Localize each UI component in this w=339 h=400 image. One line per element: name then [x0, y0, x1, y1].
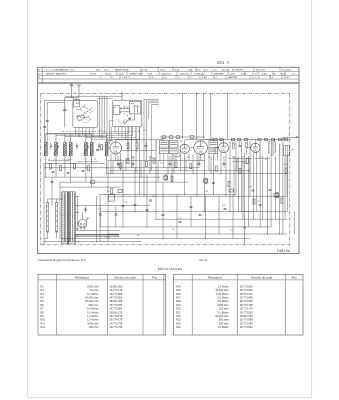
bus wire 15 — [109, 233, 287, 235]
S1 rotor spoke b — [85, 117, 89, 118]
coil L2 bottom lead — [55, 156, 57, 164]
svg-text:8.8.8: 8.8.8 — [202, 77, 208, 79]
svg-text:B3: B3 — [196, 138, 199, 140]
wire drop 14 — [143, 119, 145, 197]
bottom left bus — [44, 241, 100, 243]
header r3 sep 0 — [119, 75, 121, 79]
S1 wafer arc — [80, 106, 87, 110]
S1 inner line — [76, 102, 80, 104]
svg-text:C33: C33 — [248, 187, 253, 189]
S2 contact dot 4 — [120, 112, 121, 113]
interblock top bus 2 — [98, 97, 113, 99]
svg-text:L7: L7 — [84, 159, 86, 161]
header r3 sep 5 — [199, 75, 201, 79]
output transformer core — [270, 141, 272, 156]
selector contact 2 — [46, 215, 49, 218]
wire drop 58 — [190, 196, 192, 227]
S1 contact dot 9 — [85, 118, 88, 121]
bus wire 16 — [60, 238, 250, 240]
S1 top sub-box — [74, 100, 80, 107]
svg-text:28.773.688: 28.773.688 — [240, 318, 253, 322]
mains entry arrow — [284, 136, 299, 138]
S1 contact dot 6 — [83, 111, 86, 114]
box component 1 — [108, 194, 114, 201]
transformer tap rail — [76, 197, 78, 231]
resistor r1 — [165, 175, 167, 180]
box component 6 — [118, 190, 122, 193]
header r1 sep 0 — [157, 67, 159, 71]
wire drop 49 — [286, 156, 288, 197]
resistor r12 — [239, 169, 241, 174]
junction 26 — [52, 204, 53, 205]
S1 contact dot 10 — [80, 109, 83, 112]
svg-text:1,2 Mohm: 1,2 Mohm — [217, 296, 228, 300]
bus wire 12 — [242, 211, 287, 213]
output top wires — [254, 140, 256, 144]
svg-text:28.001.608: 28.001.608 — [110, 299, 123, 303]
output transformer secondary — [275, 143, 276, 154]
svg-text:R8: R8 — [187, 157, 190, 159]
junction 0 — [45, 167, 46, 168]
tube B5 grid lead — [247, 147, 251, 149]
wire drop 8 — [115, 154, 117, 161]
bus wire 13 — [156, 218, 287, 220]
capacitor C15 — [145, 144, 148, 146]
wire drop 22 — [175, 154, 177, 161]
resistor r17 — [253, 199, 255, 204]
svg-text:S. F.: S. F. — [196, 69, 201, 71]
wire drop 51 — [107, 161, 109, 242]
S1 contact dot 4 — [89, 111, 92, 114]
svg-text:40/60 Hz: 40/60 Hz — [180, 73, 189, 75]
tube B1 plate lead — [115, 140, 117, 142]
svg-text:R25: R25 — [284, 164, 289, 166]
switch unit S1 box — [73, 101, 98, 128]
S2 inner box — [130, 102, 141, 114]
resistor r0 — [111, 189, 113, 194]
svg-text:24B19a: 24B19a — [277, 249, 290, 253]
S2 sub-box — [113, 106, 120, 115]
junction 12 — [221, 173, 222, 174]
svg-text:28.773.806: 28.773.806 — [110, 292, 123, 296]
coil junction 2 — [85, 167, 86, 168]
svg-text:No 47: No 47 — [280, 73, 287, 75]
wire drop 43 — [262, 156, 264, 219]
capacitor c4 — [252, 189, 255, 191]
S1 contact dot 3 — [88, 109, 91, 112]
svg-text:28.773.179: 28.773.179 — [110, 314, 123, 318]
wire drop 79 — [249, 158, 251, 174]
S1 drop 2 — [82, 127, 84, 134]
svg-text:28.773.986: 28.773.986 — [240, 296, 253, 300]
IF transformer S3 — [159, 141, 168, 154]
tube B2 (IF amp) — [180, 144, 189, 153]
svg-text:28.773.979: 28.773.979 — [240, 292, 253, 296]
svg-text:R20: R20 — [176, 307, 181, 311]
transformer tap 0 — [75, 196, 79, 198]
wire drop 59 — [205, 196, 207, 238]
transformer top plate — [62, 191, 76, 193]
svg-text:No 4: No 4 — [161, 69, 166, 71]
wire drop 0 — [45, 168, 47, 177]
bottom left drop — [96, 196, 98, 242]
svg-text:R12: R12 — [40, 325, 45, 329]
svg-text:No 23.50: No 23.50 — [256, 69, 266, 71]
S2 inner drop — [134, 114, 136, 120]
capacitor c10 — [199, 213, 202, 215]
junction 13 — [230, 211, 231, 212]
S2 inner link a — [120, 108, 130, 110]
wire drop 80 — [85, 206, 87, 213]
wire drop 52 — [99, 195, 101, 242]
svg-text:RÉSISTANCES: RÉSISTANCES — [158, 266, 183, 271]
wire drop 61 — [232, 195, 234, 239]
cluster cap — [96, 149, 99, 151]
wire drop 81 — [99, 206, 101, 227]
resistor r4 — [276, 193, 278, 198]
left table header line — [38, 279, 166, 281]
svg-text:C26: C26 — [242, 163, 247, 165]
S2 top feed — [121, 97, 123, 100]
header r2 sep 9 — [257, 71, 259, 75]
right drop 1 — [238, 156, 240, 212]
capacitor c17 — [51, 180, 54, 182]
wire drop 68 — [132, 156, 134, 168]
wire drop 54 — [134, 168, 136, 212]
svg-text:R17: R17 — [176, 296, 181, 300]
wire drop 72 — [169, 156, 171, 168]
wire drop 33 — [220, 153, 222, 174]
svg-text:R15: R15 — [176, 288, 181, 292]
svg-text:R5: R5 — [160, 163, 163, 165]
header bottom line — [38, 82, 299, 84]
coil L1 bottom lead — [45, 156, 47, 168]
svg-text:28.774.179: 28.774.179 — [110, 318, 123, 322]
wire drop 16 — [150, 119, 152, 171]
S2 drop 5 — [132, 127, 134, 136]
svg-text:R6: R6 — [172, 158, 175, 160]
wire drop 39 — [249, 141, 251, 196]
trimmer cap b — [75, 145, 77, 148]
svg-text:R1: R1 — [40, 284, 44, 288]
coil L4 bottom lead — [70, 156, 72, 164]
svg-text:Résistance: Résistance — [208, 275, 223, 279]
svg-text:C18: C18 — [124, 202, 129, 204]
junction 3 — [106, 173, 107, 174]
resistor r9 — [175, 162, 177, 167]
right drop 5 — [287, 156, 289, 212]
coil junction 1 — [64, 167, 65, 168]
header r2 sep 1 — [126, 71, 128, 75]
left field resistor 2 — [74, 164, 76, 169]
capacitor c5 — [259, 203, 262, 205]
coil L3 bottom lead — [64, 156, 66, 168]
transformer tap 1 — [75, 212, 79, 214]
svg-text:Résistance: Résistance — [75, 275, 90, 279]
svg-text:R10: R10 — [40, 318, 45, 322]
svg-text:461 A: 461 A — [105, 72, 111, 75]
svg-text:50 ohm: 50 ohm — [90, 288, 99, 292]
header r3 sep 10 — [281, 75, 283, 79]
svg-text:R14: R14 — [176, 284, 181, 288]
wire drop 75 — [198, 156, 200, 168]
svg-text:4,2 Mohm: 4,2 Mohm — [217, 325, 228, 329]
svg-text:T.C.: T.C. — [213, 69, 217, 71]
svg-text:30.000 ohm: 30.000 ohm — [215, 288, 228, 292]
svg-text:28.773.179: 28.773.179 — [110, 288, 123, 292]
S2 connector symbol — [133, 105, 139, 107]
svg-text:400 ohm: 400 ohm — [89, 325, 99, 329]
capacitor c7 — [149, 199, 152, 201]
svg-text:28.773.768: 28.773.768 — [110, 321, 123, 325]
svg-text:R.S.: R.S. — [96, 69, 101, 71]
wire drop 30 — [208, 154, 210, 171]
chain component 6 — [264, 138, 267, 140]
capacitor c6 — [269, 188, 272, 190]
top feeder wire 2 — [203, 94, 205, 140]
left field cap 1 — [67, 172, 70, 174]
svg-text:R8: R8 — [40, 310, 44, 314]
chain component b3 — [190, 136, 194, 139]
transformer winding 3 — [73, 193, 76, 242]
selector contact 4 — [46, 225, 49, 228]
wire drop 37 — [241, 141, 243, 212]
tube B1 (mixer) — [110, 142, 122, 154]
S1 rotor — [77, 115, 85, 121]
capacitor c11 — [224, 207, 227, 209]
junction 28 — [213, 194, 214, 195]
S2 contact dot 0 — [121, 108, 122, 109]
resistor r13 — [246, 159, 248, 164]
wire drop 78 — [236, 158, 238, 171]
top feeder wire 3 — [210, 94, 212, 140]
junction 6 — [139, 194, 140, 195]
svg-text:28.773.654: 28.773.654 — [110, 303, 123, 307]
header left col line — [41, 67, 43, 83]
wire drop 65 — [112, 161, 114, 174]
trimmer cap a — [49, 145, 51, 148]
header r2 sep 2 — [140, 71, 142, 75]
right drop 3 — [248, 156, 250, 227]
svg-text:23.47: 23.47 — [284, 77, 290, 79]
transformer primary winding — [61, 192, 64, 241]
wire drop 45 — [270, 156, 272, 227]
junction 1 — [64, 167, 65, 168]
wire drop 60 — [218, 196, 220, 234]
svg-text:B. V.: B. V. — [204, 69, 209, 71]
link wire b — [56, 134, 133, 136]
junction 25 — [135, 211, 136, 212]
page right edge — [311, 0, 313, 398]
chain component b0 — [162, 136, 166, 139]
S2 loop wire 0 — [144, 99, 159, 118]
svg-text:S.G.R.: S.G.R. — [90, 73, 97, 75]
header r2 sep 4 — [176, 71, 178, 75]
wire drop 11 — [131, 127, 133, 168]
svg-text:C30: C30 — [98, 209, 103, 211]
junction 8 — [168, 173, 169, 174]
top feeder wire 0 — [182, 94, 184, 140]
wire drop 77 — [223, 156, 225, 168]
resistor r11 — [215, 166, 217, 171]
svg-text:R3: R3 — [40, 292, 44, 296]
wire drop 76 — [210, 158, 212, 174]
S2 drop 4 — [128, 127, 130, 134]
wire drop 21 — [171, 154, 173, 183]
capacitor c16 — [84, 208, 87, 210]
svg-text:R11: R11 — [40, 321, 45, 325]
wire drop 47 — [278, 156, 280, 234]
svg-text:C14: C14 — [131, 157, 136, 159]
svg-text:No. 11: No. 11 — [200, 258, 208, 262]
trimmer cap c — [98, 145, 100, 148]
svg-text:R24: R24 — [176, 321, 181, 325]
header r3 sep 9 — [269, 75, 271, 79]
wire drop 19 — [163, 154, 165, 168]
antenna feed cap — [43, 125, 46, 127]
svg-text:Fr. 23.50: Fr. 23.50 — [282, 68, 291, 71]
svg-text:MINIWATT: MINIWATT — [214, 72, 225, 75]
S1 inner wire c — [89, 108, 92, 111]
capacitor c21 — [223, 162, 226, 164]
switch unit S2 box — [113, 100, 142, 126]
S2 rotor — [124, 118, 131, 124]
transformer secondary winding — [68, 192, 71, 241]
chain component 4 — [244, 138, 247, 140]
bus wire 6 — [60, 181, 189, 183]
svg-text:S9: S9 — [137, 235, 140, 237]
S2 drop 7 — [139, 127, 141, 140]
IF transformer S4 — [169, 141, 178, 154]
junction 24 — [108, 234, 109, 235]
svg-text:28.773.969: 28.773.969 — [240, 325, 253, 329]
wire drop 46 — [275, 156, 277, 219]
svg-text:28.773.769: 28.773.769 — [110, 325, 123, 329]
capacitor c1 — [122, 204, 125, 206]
svg-text:N°: N° — [39, 69, 42, 71]
junction 16 — [260, 226, 261, 227]
capacitor c19 — [169, 162, 172, 164]
coil junction b 2 — [91, 163, 92, 164]
junction 10 — [197, 196, 198, 197]
wire drop 40 — [253, 152, 255, 219]
output transformer primary — [269, 142, 270, 155]
tube B4 (AF) — [219, 143, 229, 153]
cluster dot a — [99, 136, 100, 137]
svg-text:28.773.996: 28.773.996 — [240, 299, 253, 303]
left table inner edge — [163, 274, 165, 335]
S2 contact dot 7 — [130, 117, 131, 118]
capacitor c22 — [132, 162, 135, 164]
right table header line — [174, 279, 303, 281]
wire drop 36 — [235, 141, 237, 195]
wire drop 73 — [173, 158, 175, 174]
bus wire 17 — [100, 241, 141, 243]
wire drop 2 — [64, 168, 66, 177]
svg-text:28.773.806: 28.773.806 — [240, 288, 253, 292]
svg-text:L9: L9 — [105, 159, 107, 161]
wire drop 48 — [282, 137, 284, 234]
svg-text:R20: R20 — [205, 191, 210, 193]
left link wire 2 — [78, 161, 98, 163]
link wire a — [46, 132, 129, 134]
coil L4 top lead — [70, 134, 72, 143]
S1 drop 5 — [92, 127, 94, 136]
chain component 9 — [284, 138, 287, 140]
top chain wire — [206, 139, 291, 141]
svg-text:JANVIER: JANVIER — [228, 76, 238, 79]
wire drop 34 — [225, 153, 227, 197]
coil L7 bottom lead — [106, 156, 108, 168]
header r2 sep 5 — [190, 71, 192, 75]
S1 contact dot 7 — [87, 116, 90, 119]
coil junction 3 — [106, 167, 107, 168]
svg-text:B1: B1 — [111, 141, 114, 143]
right drop 4 — [284, 156, 286, 219]
wire drop 13 — [139, 127, 141, 195]
svg-text:B2: B2 — [180, 141, 183, 143]
rectifier hum bus — [75, 230, 120, 232]
svg-text:S1: S1 — [99, 130, 102, 132]
svg-text:⊥ L.A.: ⊥ L.A. — [104, 236, 110, 239]
junction 20 — [123, 226, 124, 227]
svg-text:200 ohm: 200 ohm — [219, 321, 229, 325]
header r3 sep 4 — [188, 75, 190, 79]
coil L1 top lead — [45, 134, 47, 143]
left table frame — [38, 274, 166, 335]
junction 23 — [205, 238, 206, 239]
chain component 2 — [231, 138, 234, 140]
wire drop 25 — [188, 154, 190, 161]
coil L7 top lead — [106, 134, 108, 143]
coil L6 top lead — [91, 134, 93, 143]
wire drop 3 — [70, 163, 72, 182]
chain component 8 — [278, 138, 281, 140]
wire drop 5 — [91, 163, 93, 187]
bus wire 2 — [44, 167, 199, 169]
S2 wafer arc low — [119, 119, 122, 123]
transformer core — [66, 192, 68, 244]
header r2 sep 6 — [211, 71, 213, 75]
bus wire 0 — [108, 160, 205, 162]
coil L4 — [69, 143, 72, 156]
S1 contact dot 2 — [86, 107, 89, 110]
junction 18 — [279, 234, 280, 235]
svg-text:A. PHILIPS: A. PHILIPS — [232, 68, 244, 71]
link wire c — [86, 136, 136, 138]
capacitor c14 — [190, 205, 193, 207]
svg-text:R23: R23 — [176, 318, 181, 322]
capacitor c20 — [198, 162, 201, 164]
capacitor c8 — [162, 213, 165, 215]
header r3 sep 6 — [213, 75, 215, 79]
svg-text:RÉCEPT. RADIOPH.: RÉCEPT. RADIOPH. — [46, 72, 67, 75]
svg-text:8.8.8: 8.8.8 — [262, 73, 268, 75]
wire drop 12 — [135, 127, 137, 174]
chain component 7 — [271, 138, 274, 140]
junction 22 — [163, 238, 164, 239]
junction 17 — [267, 234, 268, 235]
wire drop 9 — [120, 153, 122, 171]
tube B4 grid lead — [215, 147, 219, 149]
capacitor c15 — [115, 213, 118, 215]
tube B3 grid lead — [190, 147, 193, 149]
svg-text:S. O.: S. O. — [252, 73, 257, 75]
svg-text:800 ohm: 800 ohm — [219, 318, 229, 322]
wire drop 50 — [294, 212, 296, 234]
wire drop 1 — [55, 163, 57, 177]
gang coupling dashes — [62, 130, 140, 132]
